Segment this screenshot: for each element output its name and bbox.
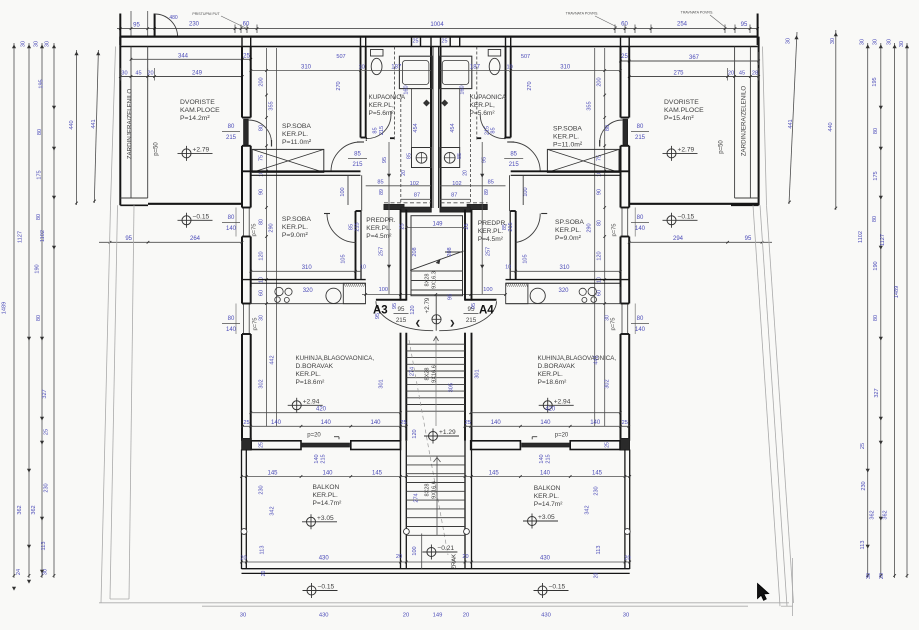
svg-text:80: 80 bbox=[228, 215, 235, 221]
svg-text:95: 95 bbox=[471, 303, 477, 309]
bath small dim lines bbox=[362, 70, 431, 72]
hob circles A4 bbox=[588, 287, 596, 295]
svg-text:25: 25 bbox=[621, 54, 628, 60]
svg-text:140: 140 bbox=[539, 454, 545, 463]
svg-text:195: 195 bbox=[872, 77, 878, 86]
lower stair chevron bbox=[434, 458, 441, 463]
svg-text:85: 85 bbox=[488, 180, 494, 186]
site boundary right tilted lines bbox=[753, 205, 780, 606]
svg-text:P=18.6m²: P=18.6m² bbox=[296, 379, 326, 386]
right margin intermediate ticks bbox=[879, 106, 882, 109]
svg-text:20: 20 bbox=[240, 556, 246, 562]
svg-text:KUPAONICA: KUPAONICA bbox=[470, 94, 507, 101]
level -0.15 below balcony A4 bbox=[538, 586, 547, 595]
wall stub predpr/vestibule A3 bbox=[384, 205, 404, 210]
upper stair flight box bbox=[411, 216, 463, 296]
svg-text:140: 140 bbox=[271, 420, 282, 426]
svg-text:310: 310 bbox=[302, 265, 313, 271]
svg-text:10: 10 bbox=[505, 265, 511, 271]
svg-text:215: 215 bbox=[509, 162, 520, 168]
svg-text:1489: 1489 bbox=[894, 286, 900, 298]
kitchen cabinet hatched A4 bbox=[506, 283, 528, 303]
balcony bottom rail bbox=[242, 568, 630, 570]
stairwell east wall bbox=[471, 210, 473, 301]
svg-text:30: 30 bbox=[873, 39, 879, 45]
svg-text:420: 420 bbox=[316, 407, 327, 413]
svg-text:25: 25 bbox=[243, 54, 250, 60]
svg-text:25: 25 bbox=[259, 442, 265, 448]
svg-text:20: 20 bbox=[879, 573, 885, 579]
svg-text:215: 215 bbox=[508, 222, 514, 231]
mid stair direction line + arrow bbox=[435, 336, 437, 426]
svg-text:20: 20 bbox=[624, 556, 630, 562]
dim chain left margin bbox=[13, 43, 15, 578]
svg-text:430: 430 bbox=[319, 556, 330, 562]
kitchen sink A3 bbox=[326, 288, 341, 303]
balcony west rail A3 bbox=[241, 450, 243, 570]
dim chain right margin bbox=[867, 43, 869, 578]
door SP.SOBA11 A4 (85/215) bbox=[511, 142, 541, 172]
svg-text:442: 442 bbox=[594, 355, 600, 364]
svg-text:80: 80 bbox=[228, 316, 235, 322]
bath niche verticals bbox=[411, 89, 413, 148]
svg-text:SP.SOBA: SP.SOBA bbox=[282, 216, 311, 223]
svg-text:9X16.3: 9X16.3 bbox=[432, 271, 438, 289]
gate door leaf top-left bbox=[154, 14, 156, 38]
upper stair break diagonal bbox=[410, 251, 464, 270]
left margin intermediate ticks bbox=[52, 106, 55, 109]
svg-text:230: 230 bbox=[861, 481, 867, 490]
svg-text:215: 215 bbox=[466, 317, 477, 324]
svg-text:60: 60 bbox=[597, 290, 603, 296]
svg-text:113: 113 bbox=[41, 542, 47, 551]
svg-text:60: 60 bbox=[243, 22, 250, 28]
svg-text:113: 113 bbox=[260, 546, 266, 555]
svg-text:30: 30 bbox=[121, 71, 127, 77]
top wall jamb connectors bbox=[241, 37, 243, 47]
svg-text:ZARDINJERA/ZELENILO: ZARDINJERA/ZELENILO bbox=[741, 86, 748, 157]
svg-text:87: 87 bbox=[414, 193, 420, 199]
svg-text:230: 230 bbox=[594, 486, 600, 495]
balcony sliding door panel A3 bbox=[302, 443, 350, 447]
svg-text:140: 140 bbox=[322, 471, 333, 477]
svg-text:ZARDINJERA/ZELENILO: ZARDINJERA/ZELENILO bbox=[127, 89, 134, 160]
dim chain left short 441 bbox=[94, 50, 98, 203]
washbasin counter A4 bbox=[439, 56, 472, 88]
svg-text:75: 75 bbox=[259, 155, 265, 161]
svg-text:320: 320 bbox=[558, 288, 569, 294]
svg-text:KAM.PLOCE: KAM.PLOCE bbox=[664, 107, 704, 114]
site boundary extension above courtyard left bbox=[111, 47, 116, 206]
dim chain y59 left (344/25) bbox=[131, 58, 250, 60]
svg-text:KER.PL.: KER.PL. bbox=[282, 224, 308, 231]
svg-text:+3.05: +3.05 bbox=[538, 514, 555, 521]
mid stair treads bbox=[406, 343, 465, 345]
svg-text:275: 275 bbox=[673, 71, 684, 77]
svg-text:p=75: p=75 bbox=[252, 223, 258, 236]
door swing mark A4 bbox=[532, 436, 537, 438]
svg-text:140: 140 bbox=[314, 454, 320, 463]
svg-text:89: 89 bbox=[484, 189, 490, 195]
svg-text:215: 215 bbox=[352, 162, 363, 168]
svg-text:20: 20 bbox=[261, 571, 267, 577]
svg-text:30: 30 bbox=[886, 39, 892, 45]
svg-text:80: 80 bbox=[228, 124, 235, 130]
svg-text:113: 113 bbox=[596, 546, 602, 555]
svg-text:208: 208 bbox=[447, 247, 453, 256]
svg-text:P=18.6m²: P=18.6m² bbox=[538, 379, 568, 386]
svg-text:p=20: p=20 bbox=[307, 433, 321, 439]
dim line y242 left (95/264) bbox=[99, 241, 242, 243]
svg-text:1102: 1102 bbox=[858, 231, 864, 243]
upper stair treads bbox=[411, 270, 463, 272]
svg-text:30: 30 bbox=[866, 573, 872, 579]
svg-text:140: 140 bbox=[370, 420, 381, 426]
level mark +2.79 left courtyard bbox=[182, 149, 191, 158]
svg-text:20: 20 bbox=[728, 71, 734, 77]
svg-text:120: 120 bbox=[597, 251, 603, 260]
svg-text:P=11.0m²: P=11.0m² bbox=[553, 142, 583, 149]
svg-text:20: 20 bbox=[462, 170, 468, 176]
dim chain left short 440 bbox=[76, 50, 78, 205]
svg-text:−0.15: −0.15 bbox=[318, 584, 335, 591]
dim line y242 right (294/95) bbox=[629, 241, 772, 243]
svg-text:200: 200 bbox=[259, 77, 265, 86]
gate door arc top-left bbox=[155, 14, 178, 37]
svg-text:302: 302 bbox=[259, 379, 265, 388]
svg-text:140: 140 bbox=[635, 226, 646, 232]
kitchen cabinet hatched A3 bbox=[343, 283, 365, 303]
svg-text:430: 430 bbox=[540, 556, 551, 562]
dim chain right short 440 bbox=[835, 30, 837, 210]
svg-text:−0.15: −0.15 bbox=[549, 584, 566, 591]
svg-text:120: 120 bbox=[259, 251, 265, 260]
kitchen counter A3 bbox=[251, 303, 366, 305]
svg-text:90: 90 bbox=[259, 189, 265, 195]
svg-text:95: 95 bbox=[398, 306, 405, 313]
party wall pair center bbox=[430, 47, 432, 209]
svg-text:305: 305 bbox=[449, 383, 455, 392]
balcony wall segment A3 left bbox=[251, 441, 301, 450]
svg-text:454: 454 bbox=[413, 123, 419, 132]
svg-text:60: 60 bbox=[621, 22, 628, 28]
door swing mark A3 bbox=[334, 436, 339, 438]
balcony wall corner block A4 bbox=[620, 439, 630, 451]
svg-text:25: 25 bbox=[464, 223, 470, 229]
svg-text:80: 80 bbox=[36, 315, 42, 321]
svg-text:215: 215 bbox=[546, 454, 552, 463]
svg-text:20: 20 bbox=[462, 554, 468, 560]
balcony posts bbox=[241, 529, 247, 535]
svg-text:−0.15: −0.15 bbox=[678, 214, 695, 221]
svg-text:9X16.6: 9X16.6 bbox=[432, 365, 438, 383]
svg-text:100: 100 bbox=[412, 546, 418, 555]
entry center post line bbox=[435, 294, 437, 331]
door SP.SOBA11 A3 (85/215) bbox=[331, 142, 361, 172]
svg-text:145: 145 bbox=[372, 471, 383, 477]
svg-text:80: 80 bbox=[605, 125, 611, 131]
svg-text:80: 80 bbox=[637, 316, 644, 322]
svg-text:310: 310 bbox=[301, 65, 312, 71]
level mark +2.79 right courtyard bbox=[667, 149, 676, 158]
svg-text:327: 327 bbox=[42, 389, 48, 398]
svg-text:190: 190 bbox=[873, 261, 879, 270]
top wall inner line bbox=[120, 46, 758, 48]
mouse cursor bbox=[758, 584, 769, 601]
level -0.21 stair bottom bbox=[427, 548, 436, 557]
stairwell west wall bbox=[400, 210, 402, 301]
svg-text:1127: 1127 bbox=[880, 234, 886, 246]
svg-text:257: 257 bbox=[486, 247, 492, 256]
svg-text:KER.PL.: KER.PL. bbox=[282, 131, 308, 138]
svg-text:100: 100 bbox=[483, 287, 492, 293]
svg-text:30: 30 bbox=[605, 315, 611, 321]
balcony wall segment A4 right bbox=[570, 441, 620, 450]
svg-text:1127: 1127 bbox=[18, 231, 24, 243]
svg-text:85: 85 bbox=[377, 180, 383, 186]
svg-text:80: 80 bbox=[259, 125, 265, 131]
wall stub predpr/vestibule A4 bbox=[467, 205, 487, 210]
site boundary bottom lines bbox=[99, 602, 789, 604]
svg-text:301: 301 bbox=[379, 379, 385, 388]
svg-text:KUHINJA,BLAGOVAONICA,: KUHINJA,BLAGOVAONICA, bbox=[538, 355, 617, 362]
svg-text:24: 24 bbox=[16, 569, 22, 575]
svg-text:30: 30 bbox=[259, 315, 265, 321]
lower stair treads bbox=[406, 455, 465, 457]
top dimension line bbox=[117, 28, 758, 30]
site boundary left tilted lines bbox=[101, 205, 111, 603]
dim chain y426 A4 bbox=[465, 425, 629, 427]
svg-text:KER.PL,: KER.PL, bbox=[470, 102, 495, 109]
svg-text:p=20: p=20 bbox=[555, 433, 569, 439]
svg-text:342: 342 bbox=[270, 506, 276, 515]
svg-text:140: 140 bbox=[590, 420, 601, 426]
balcony dim line y562 bbox=[242, 561, 630, 563]
svg-text:215: 215 bbox=[484, 126, 490, 135]
level +1.29 stair mid bbox=[429, 432, 438, 441]
svg-text:30: 30 bbox=[21, 41, 27, 47]
door DVORISTE->A4 (80/215) leaf+arc bbox=[623, 119, 628, 145]
planter strip left (zardinjera) bbox=[119, 37, 121, 206]
svg-text:+3.05: +3.05 bbox=[317, 515, 334, 522]
svg-text:p=50: p=50 bbox=[719, 140, 725, 154]
balcony east rail A4 bbox=[629, 450, 631, 570]
south wall SP.SOBA9 A4 bbox=[506, 279, 629, 281]
svg-text:362: 362 bbox=[17, 505, 23, 514]
svg-text:30: 30 bbox=[899, 41, 905, 47]
svg-text:301: 301 bbox=[475, 369, 481, 378]
svg-text:+2.94: +2.94 bbox=[554, 399, 571, 406]
svg-text:208: 208 bbox=[412, 247, 418, 256]
corridor vertical dim line A4 bbox=[481, 142, 483, 294]
svg-text:95: 95 bbox=[382, 157, 388, 163]
svg-text:362: 362 bbox=[883, 510, 889, 519]
svg-text:87: 87 bbox=[451, 193, 457, 199]
svg-text:KER.PL.: KER.PL. bbox=[478, 228, 503, 235]
svg-text:+2.79: +2.79 bbox=[678, 147, 695, 154]
svg-text:25: 25 bbox=[465, 420, 471, 426]
svg-text:344: 344 bbox=[178, 54, 189, 60]
svg-text:140: 140 bbox=[491, 420, 502, 426]
svg-text:310: 310 bbox=[559, 265, 570, 271]
svg-text:264: 264 bbox=[190, 236, 201, 242]
svg-text:80: 80 bbox=[37, 129, 43, 135]
svg-text:249: 249 bbox=[192, 71, 203, 77]
svg-text:KER.PL.: KER.PL. bbox=[313, 492, 338, 499]
svg-text:95: 95 bbox=[741, 22, 748, 28]
svg-text:DVORISTE: DVORISTE bbox=[664, 99, 699, 106]
svg-text:SP.SOBA: SP.SOBA bbox=[553, 126, 582, 133]
svg-text:10: 10 bbox=[360, 265, 366, 271]
svg-text:BALKON: BALKON bbox=[534, 485, 561, 492]
vertical dim chains A3 interior bbox=[266, 48, 268, 426]
svg-text:342: 342 bbox=[585, 505, 591, 514]
level -0.15 below balcony A3 bbox=[307, 586, 316, 595]
svg-text:BALKON: BALKON bbox=[313, 484, 340, 491]
svg-text:A3: A3 bbox=[373, 305, 388, 317]
svg-text:P=5.6m²: P=5.6m² bbox=[369, 110, 395, 117]
bath south wall + door A3 bbox=[366, 137, 367, 139]
dim chain y61 right (25/367) bbox=[621, 60, 759, 62]
svg-text:187: 187 bbox=[391, 65, 402, 71]
svg-text:100: 100 bbox=[379, 287, 388, 293]
svg-text:KUHINJA,BLAGOVAONICA,: KUHINJA,BLAGOVAONICA, bbox=[296, 355, 375, 362]
svg-text:257: 257 bbox=[378, 247, 384, 256]
svg-text:P=11.0m²: P=11.0m² bbox=[282, 139, 312, 146]
dashed line bath/vestibule A3 bbox=[384, 202, 431, 204]
balcony dims chain y476 bbox=[242, 476, 630, 478]
corridor vertical dim line A3 bbox=[388, 142, 390, 294]
svg-text:215: 215 bbox=[396, 317, 407, 324]
svg-text:KER.PL.: KER.PL. bbox=[555, 227, 581, 234]
svg-text:89: 89 bbox=[379, 189, 385, 195]
entry threshold walls bbox=[376, 299, 406, 301]
svg-text:95: 95 bbox=[448, 294, 454, 300]
svg-text:60: 60 bbox=[259, 290, 265, 296]
svg-text:145: 145 bbox=[267, 471, 278, 477]
toilet A4 bbox=[488, 50, 501, 57]
svg-text:80: 80 bbox=[259, 219, 265, 225]
svg-text:9X16.6: 9X16.6 bbox=[432, 481, 438, 499]
entry doors arcs A3+A4 bbox=[376, 301, 433, 330]
svg-text:+2.94: +2.94 bbox=[303, 399, 320, 406]
dim chain y72 left (30/45/20/249) bbox=[120, 76, 242, 78]
svg-text:P=9.0m²: P=9.0m² bbox=[555, 235, 582, 242]
svg-text:D.BORAVAK: D.BORAVAK bbox=[538, 363, 576, 370]
planter strip right (zardinjera) bbox=[758, 37, 760, 206]
level mark -0.15 left courtyard bbox=[182, 216, 191, 225]
level mark +2.94 A3 bbox=[292, 401, 301, 410]
svg-text:80: 80 bbox=[872, 216, 878, 222]
svg-text:25: 25 bbox=[400, 223, 406, 229]
SP.SOBA south wall A3 bbox=[243, 170, 361, 172]
svg-text:85: 85 bbox=[491, 127, 497, 133]
svg-text:KER.PL.: KER.PL. bbox=[553, 134, 579, 141]
fence post right bbox=[757, 14, 759, 46]
svg-text:20: 20 bbox=[401, 170, 407, 176]
south wall SP.SOBA9 A3 (kitchen partition) bbox=[243, 279, 366, 281]
svg-text:160: 160 bbox=[460, 85, 466, 94]
dim 149 vestibule bbox=[406, 227, 465, 229]
svg-text:200: 200 bbox=[597, 77, 603, 86]
balcony wall corner block A3 bbox=[242, 439, 252, 451]
svg-text:215: 215 bbox=[321, 454, 327, 463]
stair dashed diagonal bbox=[409, 340, 448, 555]
svg-text:TRAVNATA POVRS.: TRAVNATA POVRS. bbox=[681, 11, 714, 15]
stair side rails lower bbox=[400, 441, 402, 569]
svg-text:120: 120 bbox=[412, 429, 418, 438]
svg-text:85: 85 bbox=[373, 127, 379, 133]
svg-text:25: 25 bbox=[622, 420, 628, 426]
svg-text:230: 230 bbox=[189, 22, 200, 28]
svg-text:85: 85 bbox=[354, 152, 361, 158]
svg-text:30: 30 bbox=[623, 613, 629, 619]
svg-text:80: 80 bbox=[36, 214, 42, 220]
svg-text:P=14.2m²: P=14.2m² bbox=[180, 115, 210, 122]
svg-text:95: 95 bbox=[745, 236, 752, 242]
svg-text:140: 140 bbox=[226, 226, 237, 232]
wardrobe X-box A3 bbox=[252, 149, 324, 172]
svg-text:KUPAONICA: KUPAONICA bbox=[369, 94, 406, 101]
svg-text:294: 294 bbox=[673, 236, 684, 242]
svg-text:140: 140 bbox=[635, 327, 646, 333]
dim line y294.5 center bbox=[362, 294, 506, 296]
entry level mark +2.79 rotated bbox=[432, 315, 441, 324]
washing machine A4 bbox=[440, 148, 460, 168]
svg-text:302: 302 bbox=[605, 379, 611, 388]
svg-text:1489: 1489 bbox=[2, 302, 8, 314]
wall SP.SOBA/KUPAONICA A3 bbox=[360, 47, 362, 138]
site corner bottom right bbox=[781, 605, 793, 607]
svg-text:25: 25 bbox=[400, 420, 406, 426]
svg-text:362: 362 bbox=[870, 510, 876, 519]
svg-text:230: 230 bbox=[259, 485, 265, 494]
svg-text:KER.PL.: KER.PL. bbox=[538, 371, 563, 378]
svg-text:P=5.6m²: P=5.6m² bbox=[470, 110, 496, 117]
dashed line bath/vestibule A4 bbox=[441, 202, 488, 204]
svg-text:PRISTUPNI PUT: PRISTUPNI PUT bbox=[192, 12, 220, 16]
svg-text:80: 80 bbox=[597, 220, 603, 226]
svg-text:80: 80 bbox=[637, 215, 644, 221]
courtyard bottom wall left bbox=[148, 203, 243, 205]
svg-text:145: 145 bbox=[592, 471, 603, 477]
svg-text:430: 430 bbox=[319, 613, 329, 619]
dim 420 A3 bbox=[251, 412, 401, 414]
toilet A3 bbox=[371, 50, 384, 57]
svg-text:20: 20 bbox=[396, 554, 402, 560]
washbasin counter A3 bbox=[399, 56, 432, 88]
svg-text:290: 290 bbox=[587, 223, 593, 232]
SP.SOBA south wall A4 bbox=[511, 170, 629, 172]
svg-text:25: 25 bbox=[860, 443, 866, 449]
fence post left bbox=[119, 14, 121, 46]
dim chain y76 right (275/20/45/28) bbox=[629, 76, 758, 78]
svg-text:355: 355 bbox=[269, 101, 275, 110]
svg-text:KER.PL.: KER.PL. bbox=[366, 225, 391, 232]
svg-text:80: 80 bbox=[873, 315, 879, 321]
svg-text:30: 30 bbox=[240, 613, 246, 619]
svg-text:−0.15: −0.15 bbox=[193, 214, 210, 221]
courtyard bottom wall right bbox=[629, 203, 758, 205]
svg-text:p=75: p=75 bbox=[612, 223, 618, 236]
svg-text:254: 254 bbox=[677, 22, 688, 28]
svg-text:KER.PL.: KER.PL. bbox=[534, 493, 559, 500]
svg-text:215: 215 bbox=[635, 135, 646, 141]
svg-text:30: 30 bbox=[860, 39, 866, 45]
svg-text:274: 274 bbox=[410, 367, 416, 376]
svg-text:30: 30 bbox=[45, 41, 51, 47]
balcony wall segment A4 left bbox=[471, 441, 521, 450]
